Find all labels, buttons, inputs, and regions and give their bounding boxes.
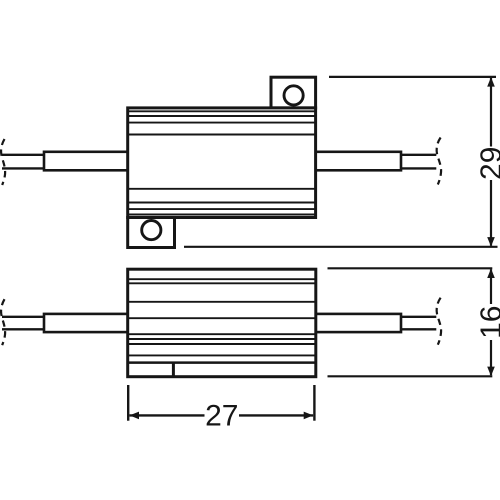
extension line top (29) bbox=[329, 76, 496, 78]
arrowhead 29 top bbox=[487, 77, 495, 87]
heatsink fin lines bottom (top view) bbox=[128, 189, 316, 215]
housing profile lines (side view) bbox=[128, 279, 316, 355]
wire break symbol right (side view) bbox=[437, 298, 441, 345]
extension tick right (27) bbox=[313, 385, 315, 421]
dimension line 29 upper segment bbox=[490, 78, 492, 147]
mounting hole lower-left bbox=[142, 221, 161, 240]
mounting tab lower-left (top view) bbox=[128, 218, 175, 248]
mounting hole upper-right bbox=[284, 86, 303, 105]
dimension line 29 lower segment bbox=[490, 180, 492, 246]
lead wire right (side view) bbox=[400, 317, 436, 330]
resistor body outline (top view) bbox=[128, 108, 316, 218]
heatsink fin lines top (top view) bbox=[128, 111, 316, 134]
wire sleeve right (top view) bbox=[315, 152, 402, 171]
bracket tab edge divider (side view) bbox=[172, 363, 175, 377]
wire sleeve left (side view) bbox=[44, 314, 129, 332]
svg-text:27: 27 bbox=[205, 400, 238, 433]
arrowhead 16 bottom bbox=[487, 367, 495, 377]
resistor body outline (side view) bbox=[128, 269, 316, 377]
extension line top (16) bbox=[328, 267, 493, 269]
extension tick left (27) bbox=[127, 385, 129, 421]
arrowhead 27 right bbox=[304, 412, 314, 420]
wire break symbol left (side view) bbox=[1, 299, 5, 345]
lead wire right (top view) bbox=[400, 155, 436, 169]
wire sleeve left (top view) bbox=[44, 152, 129, 171]
wire break symbol left (top view) bbox=[1, 139, 5, 185]
dimension line 16 upper segment bbox=[490, 269, 492, 304]
mounting tab upper-right (top view) bbox=[271, 77, 316, 108]
arrowhead 16 top bbox=[487, 269, 495, 279]
arrowhead 27 left bbox=[130, 412, 140, 420]
dimension line 16 lower segment bbox=[490, 340, 492, 375]
dimension line 27 right segment bbox=[239, 414, 313, 416]
wire break symbol right (top view) bbox=[437, 138, 441, 185]
extension line bottom (29) bbox=[184, 246, 498, 248]
arrowhead 29 bottom bbox=[487, 237, 495, 247]
bracket plate line (side view) bbox=[128, 361, 316, 364]
lead wire left (side view) bbox=[2, 317, 45, 330]
svg-text:16: 16 bbox=[475, 306, 500, 339]
wire sleeve right (side view) bbox=[315, 314, 402, 332]
svg-text:29: 29 bbox=[475, 147, 500, 180]
extension line bottom (16) bbox=[328, 375, 493, 377]
dimension line 27 left segment bbox=[130, 414, 205, 416]
lead wire left (top view) bbox=[2, 155, 45, 169]
